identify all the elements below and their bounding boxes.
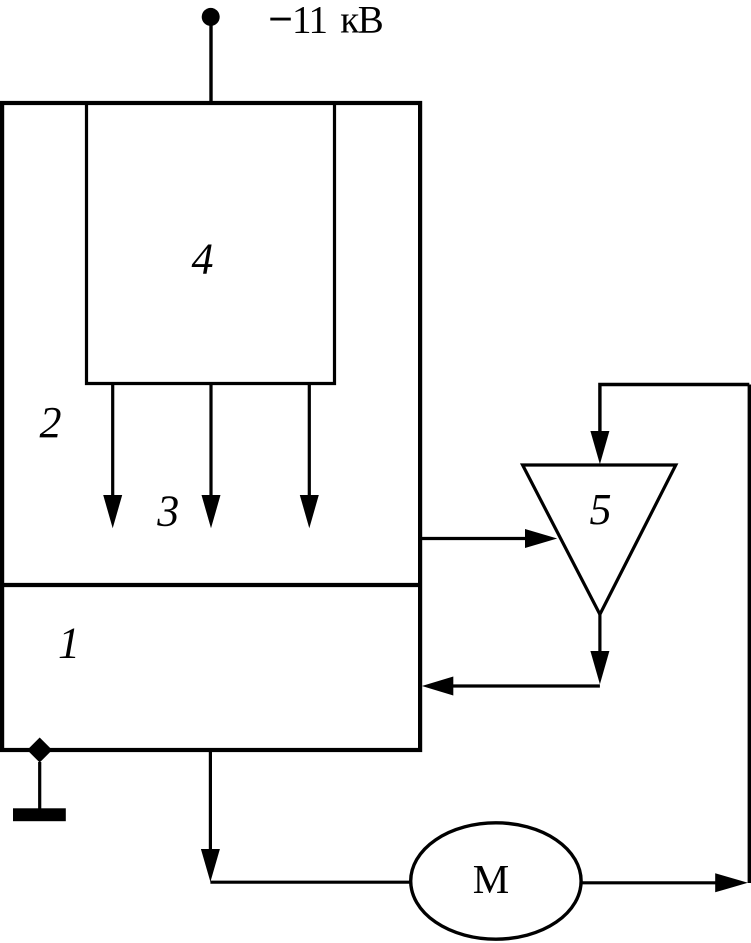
label -11 kV : minus sign xyxy=(270,18,291,21)
wire: amplifier output down with arrowhead xyxy=(590,614,609,684)
ground wire xyxy=(38,762,41,809)
amplifier 5 (triangle) xyxy=(523,465,676,614)
svg-text:2: 2 xyxy=(40,398,62,447)
corona arrow 3b xyxy=(202,385,221,528)
separator line between zone 2 and zone 1 xyxy=(0,583,422,587)
ground node (diamond junction) xyxy=(27,738,52,763)
motor M (ellipse) xyxy=(411,823,581,939)
svg-text:11 кВ: 11 кВ xyxy=(292,0,383,42)
wire: chamber to amplifier input with arrowhead xyxy=(420,529,557,548)
svg-text:1: 1 xyxy=(58,619,80,668)
corona arrow 3a xyxy=(103,385,122,528)
svg-text:5: 5 xyxy=(590,485,612,534)
wire: feedback from right rail into amplifier top with arrowhead xyxy=(590,385,749,465)
svg-text:3: 3 xyxy=(156,487,179,536)
corona arrow 3c xyxy=(300,385,319,528)
chamber outer rectangle xyxy=(2,103,420,750)
wire: chamber bottom to motor with arrowhead xyxy=(201,752,411,882)
HV terminal node xyxy=(202,8,220,26)
wire: HV terminal to chamber top xyxy=(209,17,212,101)
svg-text:4: 4 xyxy=(192,235,214,284)
wire: amplifier output back to chamber with left arrowhead xyxy=(422,677,600,696)
ground bar xyxy=(13,808,66,821)
electrode block 4 (inner rectangle) xyxy=(87,104,335,384)
right feedback rail wire xyxy=(748,385,751,884)
svg-text:М: М xyxy=(473,856,509,902)
wire: motor output to right rail with arrowhead xyxy=(581,873,748,892)
